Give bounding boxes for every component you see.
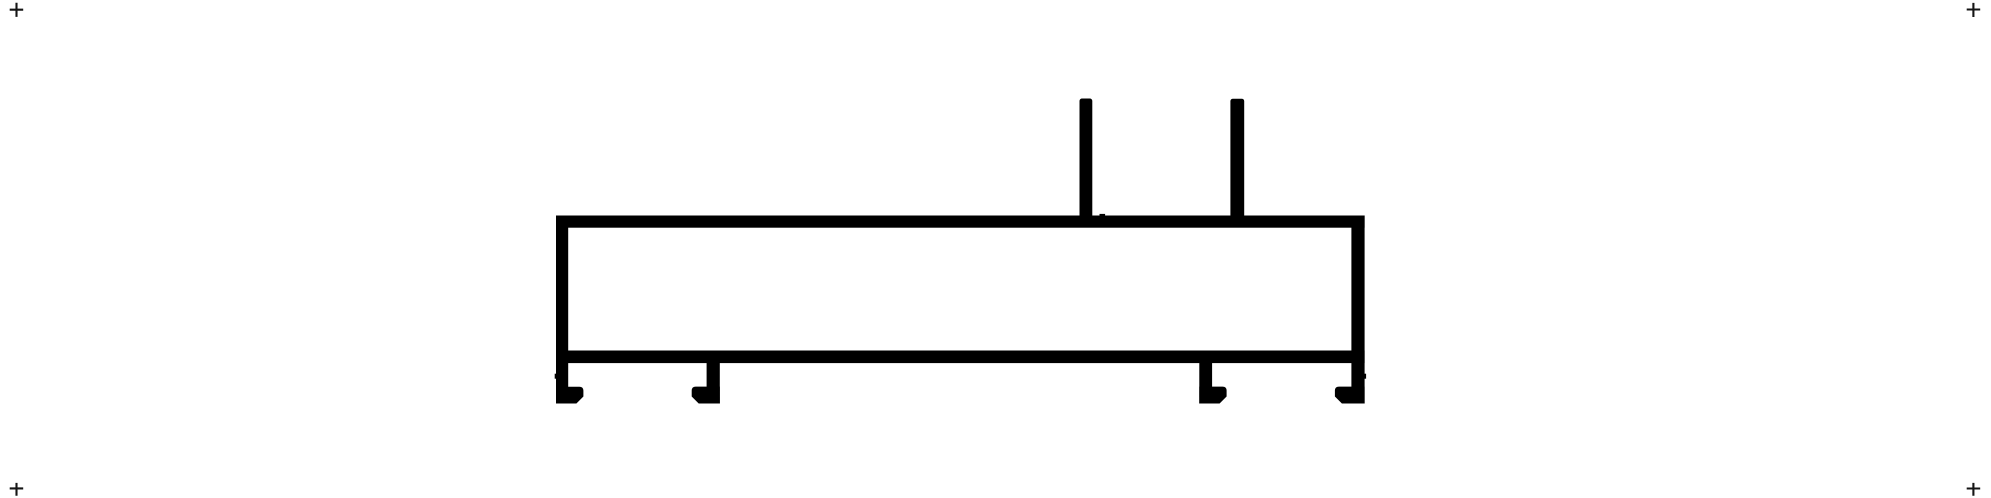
top fin left bbox=[1080, 99, 1093, 219]
registration cross top-right bbox=[1967, 3, 1981, 17]
foot far-right (hook pointing left) bbox=[1335, 387, 1365, 404]
registration cross bottom-left bbox=[10, 483, 24, 496]
top fin right bbox=[1230, 99, 1244, 219]
hanger stub inner-left bbox=[707, 355, 720, 404]
small bump on top wall right of left fin bbox=[1100, 214, 1106, 217]
nub on left wall bbox=[555, 374, 557, 379]
profile bottom web bbox=[556, 351, 1365, 364]
hanger stub inner-right bbox=[1199, 355, 1212, 404]
foot far-left (hook pointing right) bbox=[556, 387, 583, 404]
profile top wall bbox=[556, 216, 1365, 228]
foot inner-left (hook pointing left) bbox=[692, 387, 720, 404]
profile right wall bbox=[1351, 216, 1364, 404]
registration cross bottom-right bbox=[1967, 483, 1981, 496]
profile left wall bbox=[556, 216, 568, 404]
registration cross top-left bbox=[10, 3, 24, 17]
nub on right wall bbox=[1365, 374, 1367, 379]
foot inner-right (hook pointing right) bbox=[1199, 387, 1226, 404]
